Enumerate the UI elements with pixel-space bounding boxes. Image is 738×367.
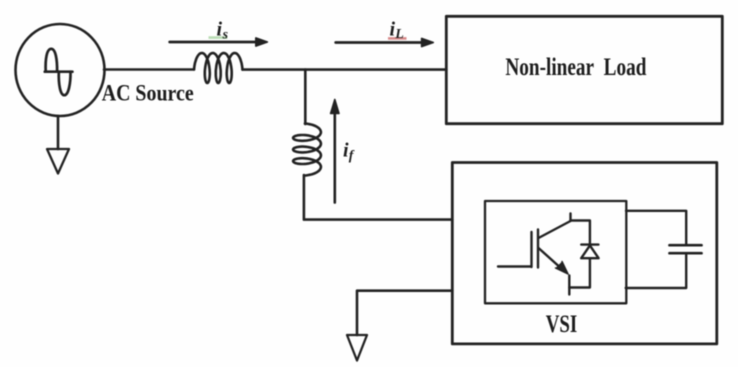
IGBT body bar: [537, 230, 539, 268]
i_L arrow: [336, 41, 423, 44]
wire: source to ground: [57, 116, 60, 149]
IGBT collector diagonal: [539, 221, 571, 238]
IGBT gate bar: [530, 232, 532, 267]
box: VSI: [452, 163, 717, 344]
diode D1 cathode bar: [581, 243, 598, 245]
capacitor C1 plates: [670, 244, 702, 247]
svg-text:i: i: [217, 18, 223, 40]
wire: filter inductor down and right to VSI: [304, 175, 452, 220]
label: red spellcheck underline under i_L: [388, 37, 407, 40]
IGBT collector stub: [569, 214, 571, 221]
transistor Q1 (IGBT) gate lead: [498, 265, 531, 267]
wire: IGBT module to capacitor (top): [626, 211, 686, 245]
svg-text:s: s: [222, 27, 229, 42]
AC source V1: [16, 24, 105, 116]
wire: capacitor bottom to IGBT module: [626, 254, 687, 288]
svg-text:AC Source: AC Source: [102, 81, 194, 106]
label: green grammar underline under i_s: [209, 36, 228, 39]
ground (AC source): [47, 149, 69, 174]
box: IGBT module (inner): [485, 201, 626, 303]
wire: collector to diode top: [571, 221, 590, 245]
inductor Lf (filter inductance): [293, 124, 321, 176]
svg-text:Non-linear Load: Non-linear Load: [505, 54, 646, 81]
wire: diode bottom to emitter: [569, 258, 590, 287]
AC source sine symbol: [46, 49, 58, 72]
box: Non-linear Load: [446, 16, 722, 123]
wire: VSI lower-left to ground: [357, 291, 452, 335]
svg-text:f: f: [349, 148, 355, 163]
i_s arrow: [170, 41, 257, 44]
ground (VSI): [347, 335, 367, 361]
inductor Ls (source inductance): [194, 53, 243, 83]
wire: inductor to load box: [243, 68, 447, 71]
diode D1: [581, 245, 598, 258]
i_f arrow: [333, 113, 336, 203]
svg-text:VSI: VSI: [546, 311, 578, 338]
wire: source to inductor Ls: [104, 68, 194, 71]
IGBT emitter diagonal with arrow: [539, 248, 564, 270]
node: PCC junction, wire down to filter inductor: [304, 70, 307, 125]
svg-text:L: L: [394, 27, 404, 42]
IGBT emitter stub: [568, 276, 570, 295]
